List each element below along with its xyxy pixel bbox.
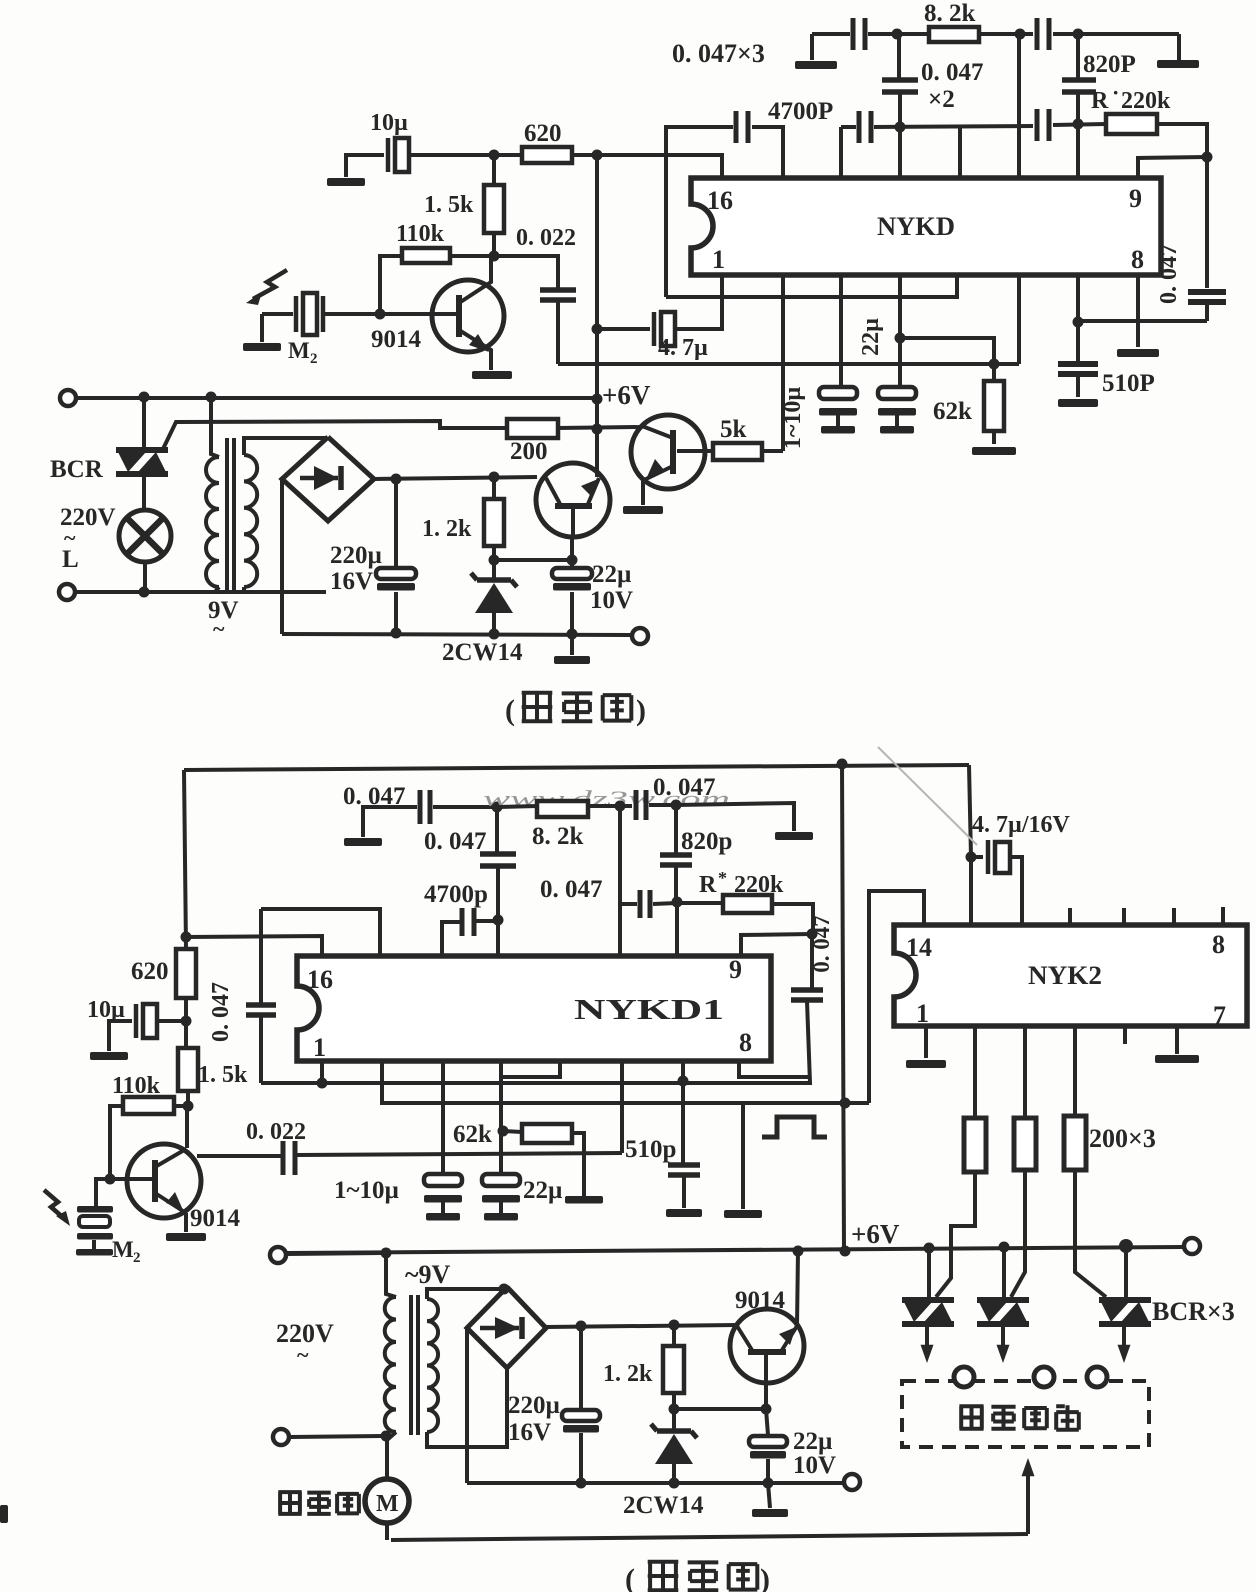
motor M fan — [365, 1479, 409, 1523]
svg-text:4700P: 4700P — [768, 98, 833, 125]
node — [206, 392, 217, 403]
node zener junction — [489, 555, 500, 566]
microphone M2 (rx) — [96, 1179, 110, 1206]
capacitor 1~10u electrolytic (tx) — [819, 387, 857, 399]
svg-text:620: 620 — [131, 958, 169, 985]
wire pin x=1019 to rail y=364 — [1017, 275, 1021, 364]
svg-text:): ) — [636, 694, 646, 727]
transistor Q1 9014 (tx) — [432, 280, 504, 352]
wire 110k left + drop — [380, 256, 402, 314]
resistor 1.2k (tx) — [492, 477, 496, 499]
node +6V rail — [592, 394, 603, 405]
svg-text:NYK2: NYK2 — [1028, 961, 1102, 990]
node — [381, 1248, 392, 1259]
svg-text:10µ: 10µ — [370, 110, 408, 136]
wire pin x=1078 to IC — [1076, 124, 1080, 178]
wire row y=127 above IC — [874, 126, 1033, 127]
svg-text:0. 047: 0. 047 — [424, 828, 487, 855]
node — [1015, 29, 1026, 40]
wire dc ground (rx) — [467, 1481, 843, 1485]
wire zener node to Q3 base — [494, 558, 572, 562]
svg-text:1~10µ: 1~10µ — [780, 387, 806, 449]
node — [761, 1404, 772, 1415]
terminal ring ch2 — [1034, 1367, 1054, 1387]
node — [840, 1246, 851, 1257]
svg-text:M: M — [376, 1491, 399, 1517]
svg-text:820p: 820p — [681, 828, 732, 855]
svg-text:8: 8 — [1131, 245, 1144, 274]
node 620 left — [489, 150, 500, 161]
resistor 620 (rx) — [176, 949, 196, 998]
capacitor 820P — [1076, 34, 1080, 78]
wire pin x=1078 down — [1076, 275, 1080, 362]
wire + pin wire x=841 — [841, 125, 856, 129]
wire 10u left + ground — [346, 155, 384, 177]
capacitor 0.047 #2 (top row) — [1035, 18, 1040, 50]
resistor 1.2k (rx) — [672, 1325, 676, 1346]
wire NYK2 pins to 200x3 — [973, 1026, 977, 1118]
svg-text:BCR: BCR — [50, 456, 104, 483]
svg-text:0. 047: 0. 047 — [809, 915, 834, 973]
wire 4.7u left lead — [597, 327, 650, 331]
svg-text:10V: 10V — [590, 587, 633, 614]
node — [669, 1320, 680, 1331]
bridge rectifier (rx) — [467, 1287, 546, 1368]
node — [966, 852, 977, 863]
node — [895, 122, 906, 133]
NYK2 pin1 ground — [924, 1026, 928, 1058]
label tiao su tong dao — [959, 1406, 983, 1429]
wire rail y=364 — [558, 362, 1019, 366]
svg-text:620: 620 — [524, 120, 562, 147]
svg-text:NYKD1: NYKD1 — [574, 995, 724, 1026]
svg-text:9014: 9014 — [371, 326, 422, 353]
arrow: wireless zigzag (tx) — [253, 270, 287, 299]
node — [840, 1098, 851, 1109]
wire x=869 loop — [869, 891, 924, 1103]
svg-text:~9V: ~9V — [405, 1260, 451, 1289]
node — [181, 932, 192, 943]
wire: tx top feedback rail y=34 — [812, 32, 850, 36]
node — [391, 628, 402, 639]
resistor 1.5k (rx) — [178, 1048, 198, 1091]
IC U2 NYKD1 — [297, 956, 771, 1061]
node — [837, 759, 848, 770]
transformer core (rx) — [409, 1295, 413, 1435]
pin wire x=900 to IC — [898, 127, 902, 178]
svg-text:8: 8 — [739, 1028, 752, 1057]
wire 220k right to corner — [1157, 124, 1207, 154]
wire to pin16 — [186, 936, 322, 958]
wire 4700P right + pin x=783 — [752, 127, 783, 178]
svg-text:16V: 16V — [330, 568, 373, 595]
ground (top left) + label 0.047x3 — [810, 34, 814, 60]
node — [678, 1076, 689, 1087]
microphone M2 (tx) — [294, 296, 299, 332]
resistor 200x3 #1 — [964, 1118, 986, 1172]
node — [807, 929, 818, 940]
IC U1 NYKD — [691, 178, 1161, 275]
wire R3 to gate — [1075, 1170, 1106, 1297]
node 510P junction — [1073, 317, 1084, 328]
wire rx top rail right corner down — [969, 765, 971, 857]
svg-text:BCR×3: BCR×3 — [1152, 1297, 1235, 1326]
node +6V column top — [592, 150, 603, 161]
capacitor 1~10u (rx) — [424, 1174, 462, 1186]
terminal (tx top left) — [60, 390, 76, 406]
node pin9 junction — [1202, 152, 1213, 163]
svg-text:+6V: +6V — [602, 380, 651, 410]
node base junction — [489, 251, 500, 262]
svg-text:9: 9 — [1129, 184, 1142, 213]
svg-text:0. 047×3: 0. 047×3 — [672, 39, 765, 68]
wire 110k left drop — [110, 1106, 123, 1179]
wire dc ground line y=634 — [282, 634, 631, 635]
NYK2 right ground — [1175, 1026, 1179, 1054]
terminal (rx dc minus) — [844, 1474, 860, 1490]
dashed box speed channels — [902, 1381, 1149, 1447]
svg-text:9: 9 — [729, 955, 742, 984]
wire — [1053, 124, 1106, 125]
transformer T1 secondary — [244, 455, 257, 587]
node — [763, 1478, 774, 1489]
wire 620 right — [572, 153, 597, 157]
svg-text:9014: 9014 — [735, 1287, 786, 1314]
ground below rx dc line — [768, 1483, 770, 1508]
svg-text:1. 2k: 1. 2k — [422, 516, 472, 542]
capacitor 510P — [1058, 361, 1098, 367]
terminal (rx +6V right) — [1184, 1238, 1200, 1254]
transformer T1 primary (tx) — [211, 397, 219, 457]
node base node — [375, 309, 386, 320]
terminal (rx 220V bottom) — [273, 1429, 289, 1445]
capacitor 220u/16V (tx) — [394, 479, 398, 568]
svg-text:22µ: 22µ — [858, 318, 884, 356]
arrow: wireless zigzag (rx) — [44, 1190, 66, 1220]
svg-text:0. 047: 0. 047 — [653, 774, 716, 801]
svg-text:(: ( — [625, 1563, 635, 1592]
svg-text:M: M — [112, 1237, 134, 1262]
svg-text:4. 7µ/16V: 4. 7µ/16V — [972, 812, 1070, 838]
svg-text:*: * — [718, 868, 727, 888]
svg-text:×2: ×2 — [928, 86, 955, 113]
ground below tx dc line — [570, 634, 574, 655]
transistor Q3 pass (tx) — [536, 463, 610, 537]
resistor 200 (tx) — [507, 419, 558, 438]
wire to pin 9 — [1138, 157, 1207, 178]
node — [317, 1078, 328, 1089]
wire +6V to pin16 y=155 — [597, 155, 722, 178]
wire pin x=498 — [496, 920, 500, 956]
svg-text:~: ~ — [213, 616, 225, 641]
wire pin x=322 (rx) — [320, 1061, 324, 1083]
svg-text:+6V: +6V — [851, 1219, 900, 1249]
node — [576, 1478, 587, 1489]
node — [671, 800, 682, 811]
wire y=321 to node — [1078, 319, 1207, 323]
wire pin x=560 stub — [501, 1061, 560, 1077]
svg-text:62k: 62k — [453, 1121, 492, 1148]
wire pin x=841 down to cap — [839, 275, 843, 387]
scan scratch artifact — [878, 747, 977, 845]
resistor 8.2k (rx) — [537, 801, 588, 817]
node — [139, 587, 150, 598]
svg-text:16: 16 — [307, 965, 333, 994]
svg-text:110k: 110k — [396, 221, 445, 247]
capacitor 0.047 (right, vertical) — [1205, 157, 1209, 288]
svg-text:(: ( — [505, 694, 515, 727]
transformer core — [225, 438, 229, 590]
capacitor 820p (rx) — [674, 805, 678, 853]
svg-text:220µ: 220µ — [330, 542, 382, 569]
svg-text:2: 2 — [310, 351, 318, 367]
wire pin x=622 (rx) — [620, 1061, 624, 1153]
svg-text:200: 200 — [510, 438, 548, 465]
wire 220V bottom line — [76, 590, 326, 594]
transformer T2 primary (rx) — [386, 1253, 396, 1297]
svg-text:2CW14: 2CW14 — [623, 1492, 704, 1519]
ground (top right) — [1157, 60, 1199, 68]
capacitor 0.047 #1 (top row) — [851, 18, 856, 50]
svg-text:4. 7µ: 4. 7µ — [658, 335, 708, 361]
wire 10u right — [409, 153, 522, 157]
node — [672, 897, 683, 908]
wire bus under IC y=297 — [666, 275, 957, 297]
capacitor 0.047 mid (rx) — [495, 807, 499, 853]
wire 8.2k row — [497, 806, 537, 807]
resistor 200x3 #2 — [1014, 1118, 1036, 1170]
node — [924, 1243, 935, 1254]
resistor 5k (tx) — [677, 449, 713, 453]
svg-text:~: ~ — [297, 1342, 309, 1367]
node: junction 8.2k left — [892, 29, 903, 40]
ground Q1 emitter — [472, 371, 512, 379]
wire to 62k — [900, 338, 994, 381]
node — [183, 1101, 194, 1112]
triac BCR3 (rx) — [1124, 1246, 1128, 1297]
wire to rx top ground — [676, 803, 794, 831]
triac BCR1 (rx) — [927, 1248, 931, 1297]
wire +6V rail (tx) — [77, 396, 597, 400]
wire line A y=1083 — [261, 1081, 812, 1085]
node gate line — [592, 424, 603, 435]
node — [576, 1321, 587, 1332]
svg-text:2CW14: 2CW14 — [442, 639, 523, 666]
transistor Q2 (tx, 5k base) — [631, 415, 705, 489]
resistor 62k (tx) — [984, 381, 1004, 431]
wire long vertical x=844 — [842, 764, 844, 1251]
node — [493, 915, 504, 926]
node — [1073, 29, 1084, 40]
terminal (tx bottom left) — [59, 584, 75, 600]
wire pin x=501 (rx) — [499, 1061, 503, 1174]
capacitor 0.047 (x2 lower) — [857, 111, 862, 143]
wire pin x=739 (rx) — [739, 1061, 810, 1077]
wire pin x=382 + line B — [382, 1061, 869, 1103]
svg-text:0. 047: 0. 047 — [208, 982, 234, 1042]
svg-text:0. 047: 0. 047 — [921, 59, 984, 86]
svg-text:62k: 62k — [933, 398, 972, 425]
wire 200 right to Q2 collector — [558, 427, 641, 428]
wire gate diag + gate line — [163, 421, 507, 449]
node — [489, 472, 500, 483]
svg-text:16: 16 — [707, 186, 733, 215]
capacitor 0.047 (x2 upper) vertical — [897, 34, 901, 78]
wire pin x=900 down — [898, 275, 902, 387]
wire bridge minus drop — [280, 479, 284, 634]
svg-text:L: L — [62, 546, 79, 573]
node — [567, 555, 578, 566]
svg-text:NYKD: NYKD — [877, 212, 955, 241]
svg-text:1. 2k: 1. 2k — [603, 1361, 653, 1387]
edge mark — [0, 1505, 8, 1523]
capacitor 220u/16V (rx) — [579, 1326, 583, 1410]
pulse waveform symbol — [762, 1117, 827, 1137]
wire 4700P left + drop x=666 — [666, 127, 733, 297]
capacitor (right of 0.047 row) — [1035, 109, 1040, 141]
wire pin x=677 — [675, 902, 679, 956]
wire +6V rail (rx) — [287, 1247, 1183, 1253]
node — [391, 474, 402, 485]
wire pin x=443 (rx) — [441, 1061, 445, 1174]
svg-text:8: 8 — [1212, 930, 1225, 959]
bridge rectifier (tx) — [282, 437, 374, 521]
terminal (tx dc out minus) — [632, 628, 648, 644]
capacitor 0.047 left column (rx) — [259, 909, 263, 1003]
capacitor 4.7u electrolytic — [652, 312, 657, 346]
terminal ring ch1 — [954, 1367, 974, 1387]
svg-text:R: R — [1091, 88, 1109, 114]
ground Q2 emitter — [623, 506, 663, 514]
wire — [1053, 32, 1179, 36]
node — [492, 802, 503, 813]
svg-text:M: M — [288, 338, 310, 363]
wire — [897, 32, 929, 36]
wire bridge minus drop (rx) — [465, 1328, 469, 1483]
wire y=909 loop to pin — [261, 909, 380, 956]
svg-text:200×3: 200×3 — [1089, 1124, 1156, 1153]
node — [1073, 119, 1084, 130]
svg-text:22µ: 22µ — [592, 561, 631, 588]
node — [139, 392, 150, 403]
node — [567, 629, 578, 640]
label dian feng shan — [278, 1492, 301, 1514]
svg-text:22µ: 22µ — [523, 1177, 562, 1204]
svg-text:1: 1 — [313, 1033, 326, 1062]
svg-text:1. 5k: 1. 5k — [424, 192, 474, 218]
wire pin9 (rx) — [741, 934, 812, 956]
terminal (rx 220V top) — [270, 1247, 286, 1263]
wire pin x=783 down to 5k — [781, 275, 785, 451]
resistor 200x3 #3 — [1064, 1116, 1086, 1170]
wire R1 to gate — [936, 1172, 975, 1297]
wire Q4 collector to 0.022 — [197, 1154, 283, 1158]
svg-text:1: 1 — [712, 245, 725, 274]
wire bottom return — [391, 1534, 1028, 1540]
svg-text:): ) — [760, 1563, 770, 1592]
svg-text:510P: 510P — [1102, 370, 1155, 397]
wire to NYK2 pin14-area — [969, 857, 973, 925]
svg-text:14: 14 — [906, 933, 932, 962]
svg-text:8. 2k: 8. 2k — [532, 823, 584, 850]
wire R2 to gate — [1011, 1170, 1025, 1297]
svg-text:4700p: 4700p — [424, 881, 488, 908]
capacitor 22u electrolytic (tx) — [878, 387, 916, 399]
node rail-62k — [989, 359, 1000, 370]
node — [381, 1431, 392, 1442]
node — [1119, 1239, 1133, 1253]
wire — [979, 32, 1033, 36]
svg-text:1. 5k: 1. 5k — [198, 1062, 248, 1088]
svg-text:220µ: 220µ — [508, 1392, 560, 1419]
wire pin x=683 (rx) — [681, 1061, 685, 1164]
triac BCR2 (rx) — [1002, 1247, 1006, 1297]
svg-text:7: 7 — [1213, 1001, 1226, 1030]
lamp L (tx) — [142, 397, 146, 447]
wire +6V column x=597 — [595, 155, 599, 477]
node — [793, 1246, 804, 1257]
resistor 1.5k (tx) — [492, 155, 496, 185]
ground pin8 — [1117, 349, 1159, 357]
terminal ring ch3 — [1087, 1367, 1107, 1387]
capacitor 22u (rx) — [482, 1174, 520, 1186]
ground off line B (rx) — [741, 1103, 745, 1209]
node rx base — [105, 1174, 116, 1185]
transformer T2 secondary (rx) — [427, 1299, 438, 1432]
wire zener to base — [674, 1407, 766, 1411]
node 10u junction — [181, 1016, 192, 1027]
capacitor 22u/10V (tx) — [570, 560, 574, 568]
svg-text:8. 2k: 8. 2k — [924, 0, 976, 27]
node — [669, 1404, 680, 1415]
svg-text:820P: 820P — [1083, 51, 1136, 78]
zener diode 2CW14 (tx) — [492, 560, 496, 578]
svg-text:9014: 9014 — [190, 1205, 241, 1232]
svg-text:0. 047: 0. 047 — [540, 876, 603, 903]
node — [499, 1284, 510, 1295]
transistor Q5 9014 (rx) — [730, 1309, 804, 1383]
svg-text:0. 022: 0. 022 — [516, 225, 576, 251]
capacitor 22u/10V (rx) — [766, 1409, 768, 1435]
svg-text:510p: 510p — [625, 1136, 676, 1163]
resistor 8.2k — [929, 27, 979, 42]
capacitor 0.047 top #2 (rx) — [634, 790, 639, 820]
wire rx top rail — [184, 765, 969, 770]
node — [669, 1478, 680, 1489]
wire — [290, 1436, 386, 1437]
wire to top-right ground — [1177, 34, 1181, 60]
node on +6V column — [592, 324, 603, 335]
svg-text:1~10µ: 1~10µ — [334, 1177, 399, 1204]
zener 2CW14 (rx) — [672, 1409, 676, 1429]
IC U3 NYK2 — [894, 925, 1247, 1026]
capacitor 0.047 right column (rx) — [810, 934, 814, 988]
svg-text:10V: 10V — [793, 1452, 836, 1479]
wire pin8 to ground — [1136, 275, 1140, 347]
transistor Q4 9014 (rx) — [127, 1144, 201, 1218]
wire — [287, 1253, 386, 1254]
wire rx left drop x=186 — [184, 770, 186, 949]
svg-text:220k: 220k — [1121, 88, 1171, 114]
svg-text:2: 2 — [133, 1250, 141, 1266]
wire bridge plus to Q3 — [374, 477, 537, 479]
triac BCR (tx) — [116, 447, 168, 453]
svg-text:5k: 5k — [720, 416, 747, 443]
svg-text:16V: 16V — [508, 1419, 551, 1446]
wire pin x=1019 from top node — [1017, 34, 1021, 178]
node — [489, 629, 500, 640]
node 22u junction — [895, 333, 906, 344]
